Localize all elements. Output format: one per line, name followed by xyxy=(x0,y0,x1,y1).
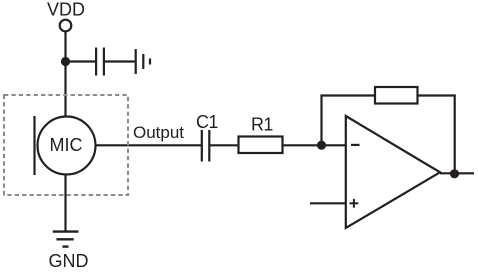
svg-text:Output: Output xyxy=(133,123,184,142)
svg-text:GND: GND xyxy=(49,251,89,271)
svg-text:VDD: VDD xyxy=(47,0,85,20)
svg-text:C1: C1 xyxy=(196,112,218,132)
svg-text:R1: R1 xyxy=(251,115,273,135)
svg-text:MIC: MIC xyxy=(50,135,83,155)
